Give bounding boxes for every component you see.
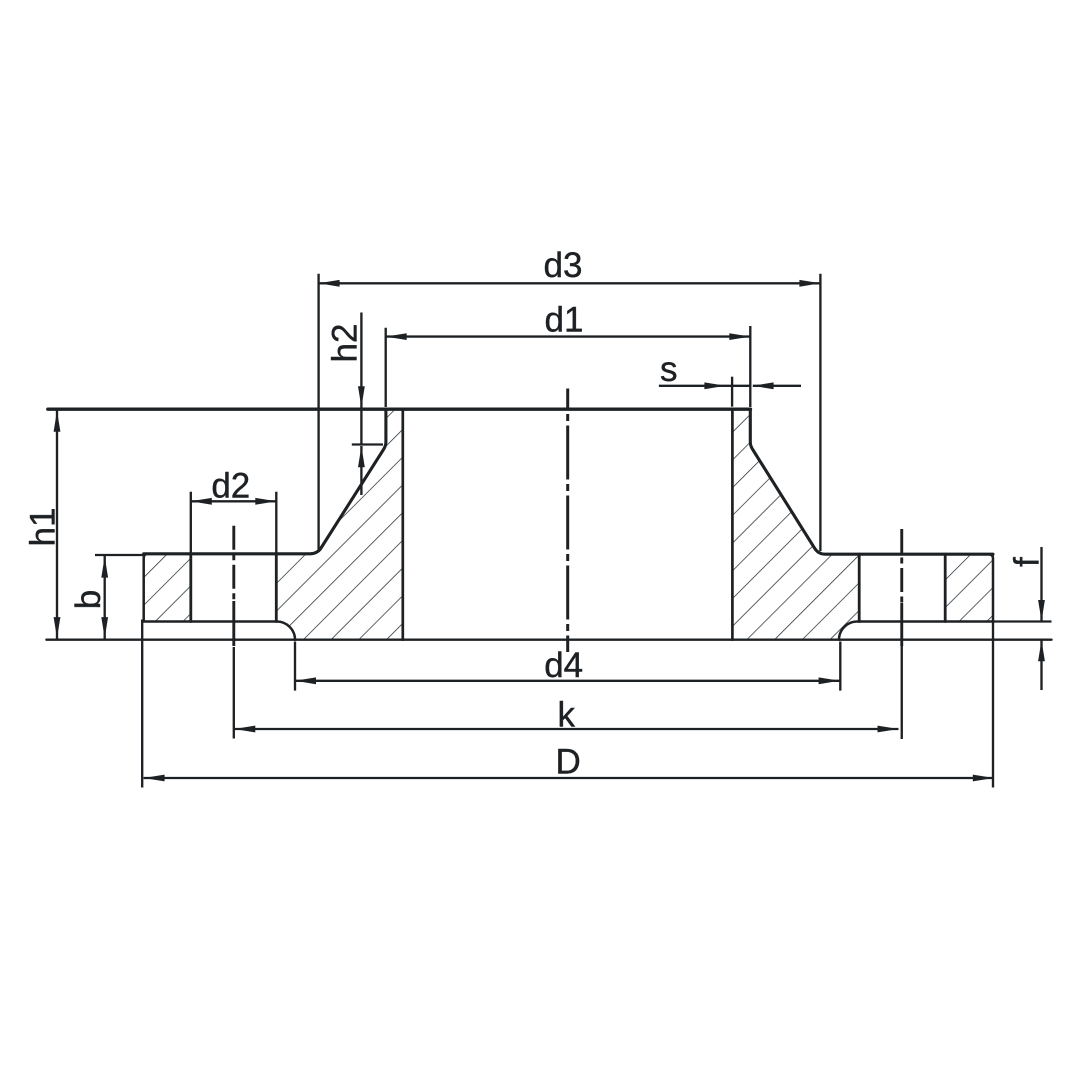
svg-text:d3: d3	[544, 246, 583, 285]
svg-text:d1: d1	[545, 301, 584, 340]
svg-text:k: k	[557, 696, 575, 735]
svg-text:D: D	[556, 743, 581, 782]
svg-text:s: s	[660, 350, 678, 389]
svg-text:d2: d2	[211, 467, 250, 506]
svg-text:d4: d4	[544, 646, 583, 685]
svg-text:f: f	[1008, 557, 1047, 567]
svg-text:h2: h2	[326, 324, 365, 363]
svg-text:b: b	[69, 590, 108, 609]
svg-text:h1: h1	[24, 508, 63, 547]
